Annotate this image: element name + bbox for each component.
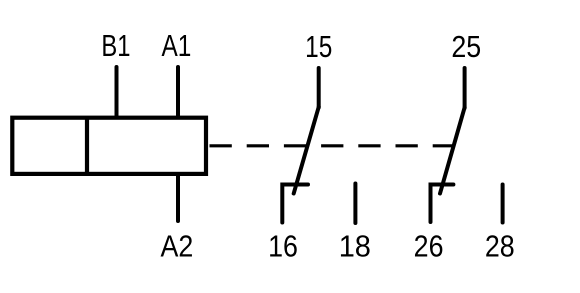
wire terminal 18 bbox=[353, 184, 357, 224]
svg-text:15: 15 bbox=[305, 29, 332, 63]
wire A2 terminal bbox=[176, 174, 180, 221]
svg-text:A2: A2 bbox=[160, 230, 193, 264]
svg-text:B1: B1 bbox=[101, 28, 130, 63]
contact blade 25 (changeover contact 2) bbox=[440, 108, 465, 194]
mechanical linkage (dashed actuator line) bbox=[210, 144, 456, 147]
svg-text:26: 26 bbox=[414, 230, 444, 264]
wire terminal 15 bbox=[317, 68, 321, 108]
coil K1 body (timer relay coil rectangle) bbox=[12, 118, 206, 174]
wire terminal 28 bbox=[501, 185, 505, 223]
svg-text:A1: A1 bbox=[161, 29, 191, 63]
svg-text:25: 25 bbox=[451, 30, 481, 64]
fixed contact 16 (angle) bbox=[282, 185, 308, 223]
contact blade 15 (changeover contact 1) bbox=[294, 107, 319, 194]
wire A1 terminal bbox=[176, 67, 180, 117]
fixed contact 26 (angle) bbox=[431, 185, 454, 223]
svg-text:28: 28 bbox=[485, 230, 515, 264]
svg-text:18: 18 bbox=[339, 230, 371, 264]
coil internal divider bbox=[85, 118, 89, 174]
wire B1 terminal bbox=[115, 67, 119, 117]
wire terminal 25 bbox=[463, 68, 467, 108]
svg-text:16: 16 bbox=[268, 230, 298, 264]
